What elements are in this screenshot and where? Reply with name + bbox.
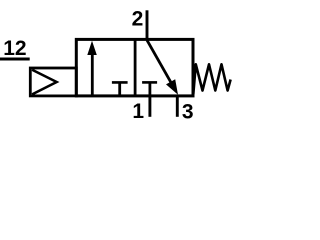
position divider: [134, 39, 137, 96]
flow path 2 to 3 arrowhead: [166, 79, 178, 95]
valve body box (two positions): [76, 39, 193, 96]
blocked port 1 T (right position) crossbar: [142, 81, 157, 84]
svg-text:1: 1: [132, 100, 144, 123]
blocked port 1 T (right position) stem: [148, 82, 151, 95]
port 3 line: [176, 96, 179, 117]
flow arrow 1 to 2 shaft (left position): [91, 54, 94, 96]
blocked port 3 T (left position) stem: [118, 82, 121, 95]
port 2 line: [146, 10, 149, 40]
port 1 line: [148, 96, 151, 117]
flow path 2 to 3 diagonal (right position): [147, 40, 174, 88]
pilot actuator box: [30, 68, 76, 96]
flow arrow 1 to 2 head: [87, 41, 97, 55]
svg-text:3: 3: [182, 100, 194, 123]
return spring: [193, 64, 230, 94]
blocked port 3 T (left position) crossbar: [112, 81, 128, 84]
svg-text:12: 12: [3, 37, 26, 60]
pilot line port 12: [0, 58, 30, 61]
pilot triangle: [32, 70, 57, 95]
svg-text:2: 2: [132, 7, 144, 30]
